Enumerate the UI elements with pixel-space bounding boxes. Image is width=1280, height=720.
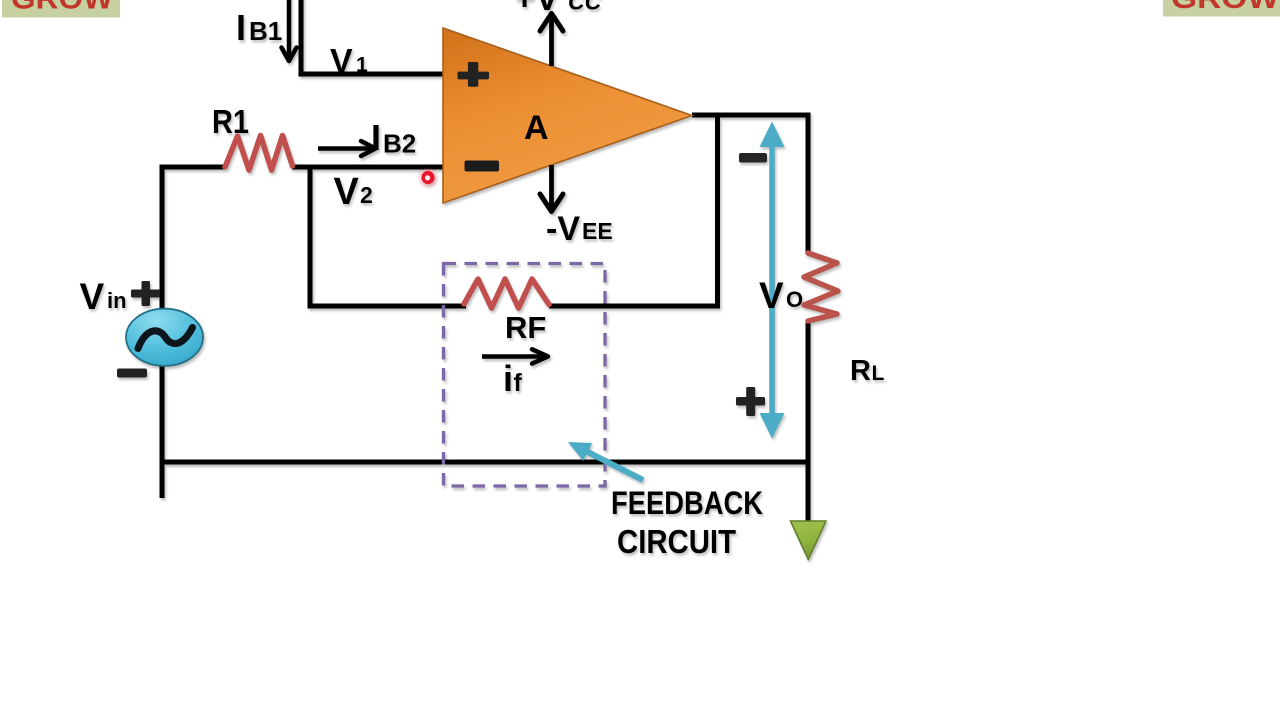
label IB1	[236, 7, 282, 48]
wire right branch above RL	[806, 113, 811, 254]
source Vin AC symbol	[126, 309, 203, 366]
label FEEDBACK CIRCUIT	[611, 485, 763, 560]
node label V2	[334, 171, 373, 213]
label Vo	[759, 275, 803, 316]
node marker red pointer dot	[418, 168, 438, 188]
svg-text:in: in	[107, 288, 127, 313]
svg-text:GROW: GROW	[11, 0, 114, 16]
annotation arrow to feedback box	[563, 433, 643, 480]
logo watermark top-left GROW	[2, 0, 120, 18]
svg-text:f: f	[514, 369, 523, 397]
svg-text:2: 2	[360, 182, 373, 208]
svg-text:1: 1	[356, 54, 368, 77]
svg-text:B1: B1	[249, 16, 282, 46]
svg-text:O: O	[786, 287, 803, 312]
logo watermark top-right GROW	[1163, 0, 1280, 17]
svg-text:GROW: GROW	[1171, 0, 1280, 15]
svg-text:L: L	[872, 362, 885, 385]
current arrow IB1	[282, 0, 297, 61]
op-amp A	[443, 28, 692, 203]
svg-text:CIRCUIT: CIRCUIT	[617, 523, 736, 560]
output plus sign	[736, 387, 765, 416]
svg-text:I: I	[371, 117, 381, 158]
wire R1 right segment to - input	[292, 165, 444, 170]
resistor RF	[464, 279, 549, 308]
op-amp + input pin	[458, 62, 490, 87]
svg-text:V: V	[330, 43, 353, 81]
svg-text:FEEDBACK: FEEDBACK	[611, 485, 763, 521]
current arrow if	[482, 349, 548, 363]
wire right branch below RL to ground	[806, 321, 811, 522]
wire V1 input (top vertical + horizontal to + input)	[301, 0, 444, 74]
label IB2	[371, 117, 416, 159]
svg-text:V: V	[80, 276, 105, 317]
svg-text:R: R	[850, 355, 871, 387]
power +VCC arrow	[540, 14, 563, 67]
wire feedback right segment up to output node	[549, 117, 718, 306]
output minus sign	[739, 153, 767, 163]
svg-text:B2: B2	[383, 129, 416, 159]
op-amp - input pin	[465, 161, 500, 172]
source Vin plus sign	[131, 281, 160, 306]
ground symbol	[791, 521, 827, 560]
output voltage double arrow Vo	[760, 122, 785, 439]
svg-text:+V: +V	[514, 0, 559, 18]
resistor RL	[804, 253, 838, 321]
wire R1 left segment from Vin node	[162, 167, 226, 498]
resistor R1	[225, 136, 293, 171]
power -VEE arrow	[540, 165, 563, 212]
label RL	[850, 355, 885, 387]
svg-text:V: V	[759, 275, 784, 316]
feedback circuit dashed box	[444, 264, 606, 487]
svg-text:A: A	[524, 109, 549, 147]
source Vin minus sign	[117, 369, 147, 378]
svg-text:-V: -V	[546, 210, 580, 248]
svg-text:RF: RF	[505, 310, 546, 345]
wire bottom return	[160, 460, 808, 465]
svg-text:EE: EE	[582, 218, 613, 244]
wire V2 junction down to feedback row	[310, 167, 466, 306]
svg-text:I: I	[236, 7, 246, 48]
source Vin label	[80, 276, 127, 317]
current arrow IB2	[318, 141, 376, 156]
svg-text:CC: CC	[568, 0, 602, 15]
label +VCC	[514, 0, 602, 18]
label -VEE	[546, 210, 613, 248]
node label V1	[330, 43, 368, 81]
svg-text:V: V	[334, 171, 360, 213]
svg-text:R1: R1	[212, 103, 249, 140]
wire output node horizontal	[692, 113, 808, 118]
svg-text:i: i	[503, 358, 513, 399]
label if	[503, 358, 523, 399]
